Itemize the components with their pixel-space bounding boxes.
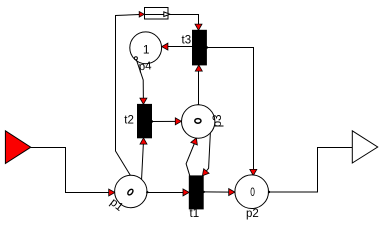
token count 0 in p1 (slanted ellipse) (127, 188, 134, 195)
place p3 (182, 105, 215, 138)
place p2 (235, 175, 269, 209)
nub p2 right (268, 191, 270, 193)
transition t2 (138, 104, 152, 137)
arrowhead into t1 top (202, 169, 209, 176)
transition t3 (193, 30, 207, 65)
svg-text:0: 0 (250, 187, 255, 200)
output sink triangle (white) (352, 131, 377, 163)
svg-text:p2: p2 (246, 208, 259, 220)
wire t1 to p3 (zigzag) (186, 140, 196, 176)
svg-text:t3: t3 (182, 35, 192, 47)
token count 0 in p3 (rotated ellipse) (195, 119, 201, 124)
svg-text:t2: t2 (124, 115, 134, 127)
arrowhead into p2 top (250, 169, 257, 175)
transition t4 (horizontal, white) (145, 8, 169, 20)
input source triangle (red) (5, 131, 30, 164)
nub p3 top (197, 104, 200, 107)
wire p1 to t1 (147, 192, 187, 194)
arrowhead into t2 top (140, 98, 147, 104)
wire p1 to t4 (long left wire) (116, 15, 140, 176)
nub t1 right (203, 191, 205, 193)
wire t3 to p2 (206, 48, 253, 171)
wire input-triangle to p1 (31, 148, 112, 193)
nub p1 right (146, 191, 148, 193)
arrowhead into t3 bottom (195, 65, 202, 71)
arrowhead into t1 left (183, 189, 189, 196)
arrowhead into p3 left (175, 118, 181, 125)
nub p4 bottom-left (ring) (134, 57, 137, 60)
transition t1 (189, 176, 203, 209)
nub t3 right (206, 46, 208, 48)
wire t3 to p4 (164, 46, 193, 48)
open arrowhead at t4 right (164, 12, 170, 17)
wire t1 to p2 (203, 191, 232, 193)
svg-text:t1: t1 (190, 208, 200, 220)
arrowhead into p3 bottom (191, 138, 198, 145)
arrowhead into p4 right (162, 43, 168, 50)
wire t4 to t3 (through t4) (145, 15, 199, 29)
arrowhead into p2 left (229, 189, 235, 196)
place p4 (130, 32, 162, 64)
arrowhead into p1 left (109, 189, 115, 196)
arrowhead into t3 top (195, 24, 202, 30)
arrowhead into t2 bottom (140, 138, 147, 144)
arrowhead into t4 left (139, 12, 144, 18)
wire t2 to p3 (152, 120, 180, 122)
wire p4 to t2 (136, 58, 144, 102)
nub t2 right (151, 120, 153, 122)
svg-text:1: 1 (143, 42, 150, 56)
svg-text:p3: p3 (212, 115, 224, 128)
wire p2 to output triangle (269, 148, 353, 193)
place p1 (115, 175, 147, 207)
wire p3 to t3 (198, 66, 200, 105)
wire p1 to t2 (142, 140, 144, 181)
wire p3 to t1 (zigzag) (204, 132, 210, 174)
